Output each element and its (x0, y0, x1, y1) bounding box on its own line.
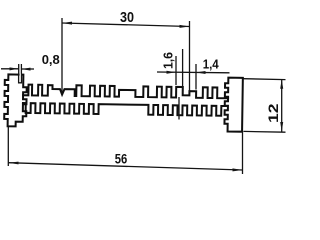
svg-text:0,8: 0,8 (42, 52, 60, 67)
dim 1,6 / 1,4: shared line (157, 71, 230, 74)
svg-text:1,6: 1,6 (161, 52, 176, 69)
30 left arrow (62, 22, 72, 25)
svg-text:12: 12 (265, 103, 281, 123)
0,8 left arrow (points right) (10, 67, 19, 70)
dimension lines (1, 18, 286, 174)
dimension texts (42, 9, 281, 167)
dim 1,4: extension line (195, 64, 197, 90)
dim 30: extension lines (61, 18, 63, 92)
0,8 right arrow (points left) (21, 68, 30, 71)
1,6 arrow (points right) (167, 71, 177, 74)
56 right arrow (233, 168, 243, 171)
dim 1,6: extension lines (175, 56, 177, 85)
56 left arrow (8, 162, 18, 165)
slot in left block (0,8 wide) (19, 74, 22, 83)
12 bottom arrow (points down) (280, 122, 283, 132)
heatsink profile cross-section (4, 74, 243, 131)
dim 56: extension lines (7, 127, 9, 166)
bottom fin row (23, 103, 226, 116)
dim 12: extension lines (244, 78, 286, 81)
dim 12: line (281, 79, 283, 131)
svg-text:30: 30 (120, 9, 134, 26)
1,4 arrow (points left) (196, 71, 206, 74)
12 top arrow (points up) (280, 79, 283, 89)
top fin row (23, 85, 228, 99)
dim 56: line (8, 163, 242, 170)
left end block (serrated) (4, 74, 27, 126)
right end block (serrated) (224, 78, 242, 132)
arrowheads (8, 22, 283, 172)
svg-text:1,4: 1,4 (203, 57, 220, 72)
dim 0,8: line + ticks (1, 68, 19, 70)
svg-text:56: 56 (115, 151, 128, 167)
dim 30: line (62, 23, 190, 27)
30 right arrow (180, 25, 190, 28)
